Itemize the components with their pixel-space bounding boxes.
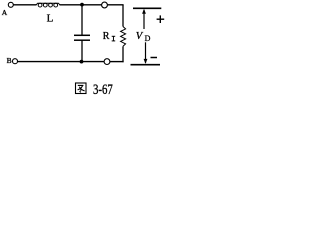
terminal B circle <box>13 59 18 64</box>
wire inductor to node <box>60 4 102 6</box>
VD up arrow <box>143 10 145 29</box>
svg-text:A: A <box>2 8 8 17</box>
svg-text:D: D <box>145 34 151 43</box>
terminal top-right circle <box>102 2 108 8</box>
resistor RL bottom lead <box>122 46 124 62</box>
junction dot top <box>80 3 84 7</box>
VD down arrow <box>145 42 147 63</box>
bottom wire <box>18 61 105 63</box>
terminal bottom-right circle <box>104 59 110 65</box>
wire circle to corner <box>108 4 124 6</box>
wire A to inductor <box>13 4 36 6</box>
junction dot bottom <box>80 60 84 64</box>
svg-text:3-67: 3-67 <box>93 82 113 98</box>
wire bottom circle to RL corner <box>110 61 124 63</box>
capacitor bottom lead <box>81 40 83 61</box>
caption CJK 图 drawn as strokes <box>76 83 87 94</box>
inductor L <box>36 3 60 7</box>
VD annotation top bar <box>133 7 161 9</box>
minus sign <box>151 57 158 59</box>
svg-text:B: B <box>7 56 12 65</box>
resistor RL zigzag <box>121 27 126 47</box>
svg-text:L: L <box>47 13 54 25</box>
VD annotation bottom bar <box>131 64 161 66</box>
capacitor top lead <box>81 5 83 35</box>
svg-text:R: R <box>103 31 110 42</box>
terminal A circle <box>8 2 13 7</box>
svg-text:V: V <box>136 31 144 42</box>
capacitor plates <box>74 34 90 36</box>
resistor RL top lead <box>122 5 124 27</box>
plus sign <box>157 18 165 20</box>
